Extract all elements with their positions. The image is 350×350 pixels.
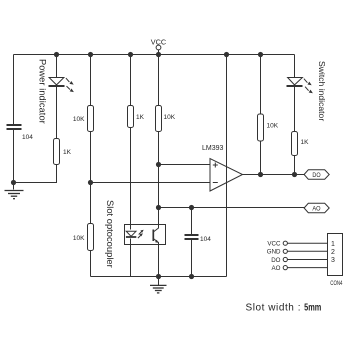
resistor R4 10K <box>156 106 162 132</box>
opto light arrow <box>138 230 144 238</box>
wire LED to R7 <box>294 87 296 132</box>
wire R4 to plus node <box>158 132 160 209</box>
capacitor C2 <box>185 235 199 239</box>
wire C2 top <box>191 208 193 235</box>
node K junction <box>258 52 263 57</box>
svg-text:1K: 1K <box>63 149 72 156</box>
svg-text:DO: DO <box>271 257 280 264</box>
wire R2 top <box>90 55 92 106</box>
wire plus input <box>159 164 211 166</box>
svg-text:10K: 10K <box>267 123 279 130</box>
VCC terminal <box>156 45 161 54</box>
wire LED anode <box>56 55 58 78</box>
wire bottom rail <box>91 276 227 278</box>
caption Slot width <box>246 303 322 314</box>
svg-text:AO: AO <box>312 206 320 213</box>
wire R3 top <box>130 55 132 106</box>
wire left column bottom <box>13 130 15 190</box>
svg-text:5mm: 5mm <box>304 303 321 314</box>
svg-text:1: 1 <box>331 241 335 248</box>
svg-text:DO: DO <box>312 172 320 179</box>
wire R7 bottom <box>294 156 296 175</box>
ground G1 <box>5 191 24 199</box>
LED D1 power indicator <box>49 78 74 93</box>
wire switch LED branch top <box>294 55 296 78</box>
CON4 body <box>328 234 343 276</box>
node J junction <box>224 52 229 57</box>
svg-text:10K: 10K <box>164 114 176 121</box>
node C junction <box>88 180 93 185</box>
wire AO line <box>159 207 305 209</box>
node B junction <box>88 52 93 57</box>
node F junction plus input <box>156 162 161 167</box>
wire C2 bottom <box>191 240 193 277</box>
opto LED <box>126 231 136 237</box>
resistor R7 1K <box>292 132 298 156</box>
wire R3 to opto LED <box>130 128 132 230</box>
port DO <box>304 170 329 179</box>
svg-text:LM393: LM393 <box>202 145 224 152</box>
node H junction <box>258 172 263 177</box>
svg-text:VCC: VCC <box>267 241 281 248</box>
slot optocoupler U2 box <box>125 225 166 245</box>
resistor R1 1K <box>54 139 60 165</box>
resistor R5 10K <box>258 114 264 141</box>
wire R6 bottom <box>90 251 92 277</box>
wire opto LED to bottom rail <box>130 239 132 277</box>
node L junction cap top <box>189 205 194 210</box>
pin circle DO <box>283 257 287 261</box>
wire minus input <box>91 182 211 184</box>
node N junction <box>189 274 194 279</box>
capacitor C1 <box>7 125 22 129</box>
svg-text:Slot width :: Slot width : <box>246 303 301 314</box>
wire left column top <box>13 55 15 125</box>
svg-text:1K: 1K <box>301 139 310 146</box>
node M junction ground <box>156 274 161 279</box>
svg-text:VCC: VCC <box>151 38 166 47</box>
ground G2 <box>150 277 167 293</box>
svg-text:3: 3 <box>331 257 335 264</box>
svg-text:Switch indicator: Switch indicator <box>317 61 327 121</box>
wire ground to LED branch <box>14 165 57 183</box>
wire R5 bottom <box>260 141 262 175</box>
node A junction <box>54 52 59 57</box>
resistor R2 10K <box>88 106 94 132</box>
wire comparator output DO line <box>243 174 305 176</box>
wire pin3 <box>287 259 327 261</box>
wire VCC top rail <box>14 54 295 56</box>
opto phototransistor Q1 <box>153 209 158 277</box>
pin circle VCC <box>283 241 287 245</box>
node GND1 junction <box>11 180 16 185</box>
resistor R6 10K <box>88 224 94 251</box>
connector CON4 <box>267 234 343 288</box>
node I junction <box>292 172 297 177</box>
wire LED cathode to R1 <box>56 87 58 139</box>
node D junction <box>128 52 133 57</box>
node E junction VCC <box>156 52 161 57</box>
resistor R3 1K <box>128 106 134 128</box>
wire VCC bypass branch <box>226 55 228 277</box>
svg-text:10K: 10K <box>73 116 85 123</box>
port AO <box>304 203 329 212</box>
pin circle AO <box>283 266 287 270</box>
node G junction collector <box>156 205 161 210</box>
wire R2 to R6 <box>90 132 92 224</box>
LED D2 switch indicator <box>287 78 313 94</box>
wire pin4 <box>287 267 327 269</box>
svg-text:CON4: CON4 <box>330 280 342 287</box>
svg-text:104: 104 <box>200 236 211 243</box>
op-amp U1 LM393 <box>210 159 243 192</box>
svg-text:Power indicator: Power indicator <box>37 59 47 124</box>
wire R5 top <box>260 55 262 115</box>
svg-text:10K: 10K <box>73 235 85 242</box>
svg-text:1K: 1K <box>136 114 145 121</box>
svg-text:AO: AO <box>272 265 281 272</box>
svg-text:104: 104 <box>22 134 33 141</box>
svg-text:2: 2 <box>331 249 335 256</box>
wire pin1 <box>287 242 327 244</box>
wire R4 top <box>158 55 160 106</box>
wire pin2 <box>287 250 327 252</box>
svg-text:GND: GND <box>267 249 281 256</box>
pin circle GND <box>283 249 287 253</box>
svg-text:Slot optocoupler: Slot optocoupler <box>105 200 116 268</box>
